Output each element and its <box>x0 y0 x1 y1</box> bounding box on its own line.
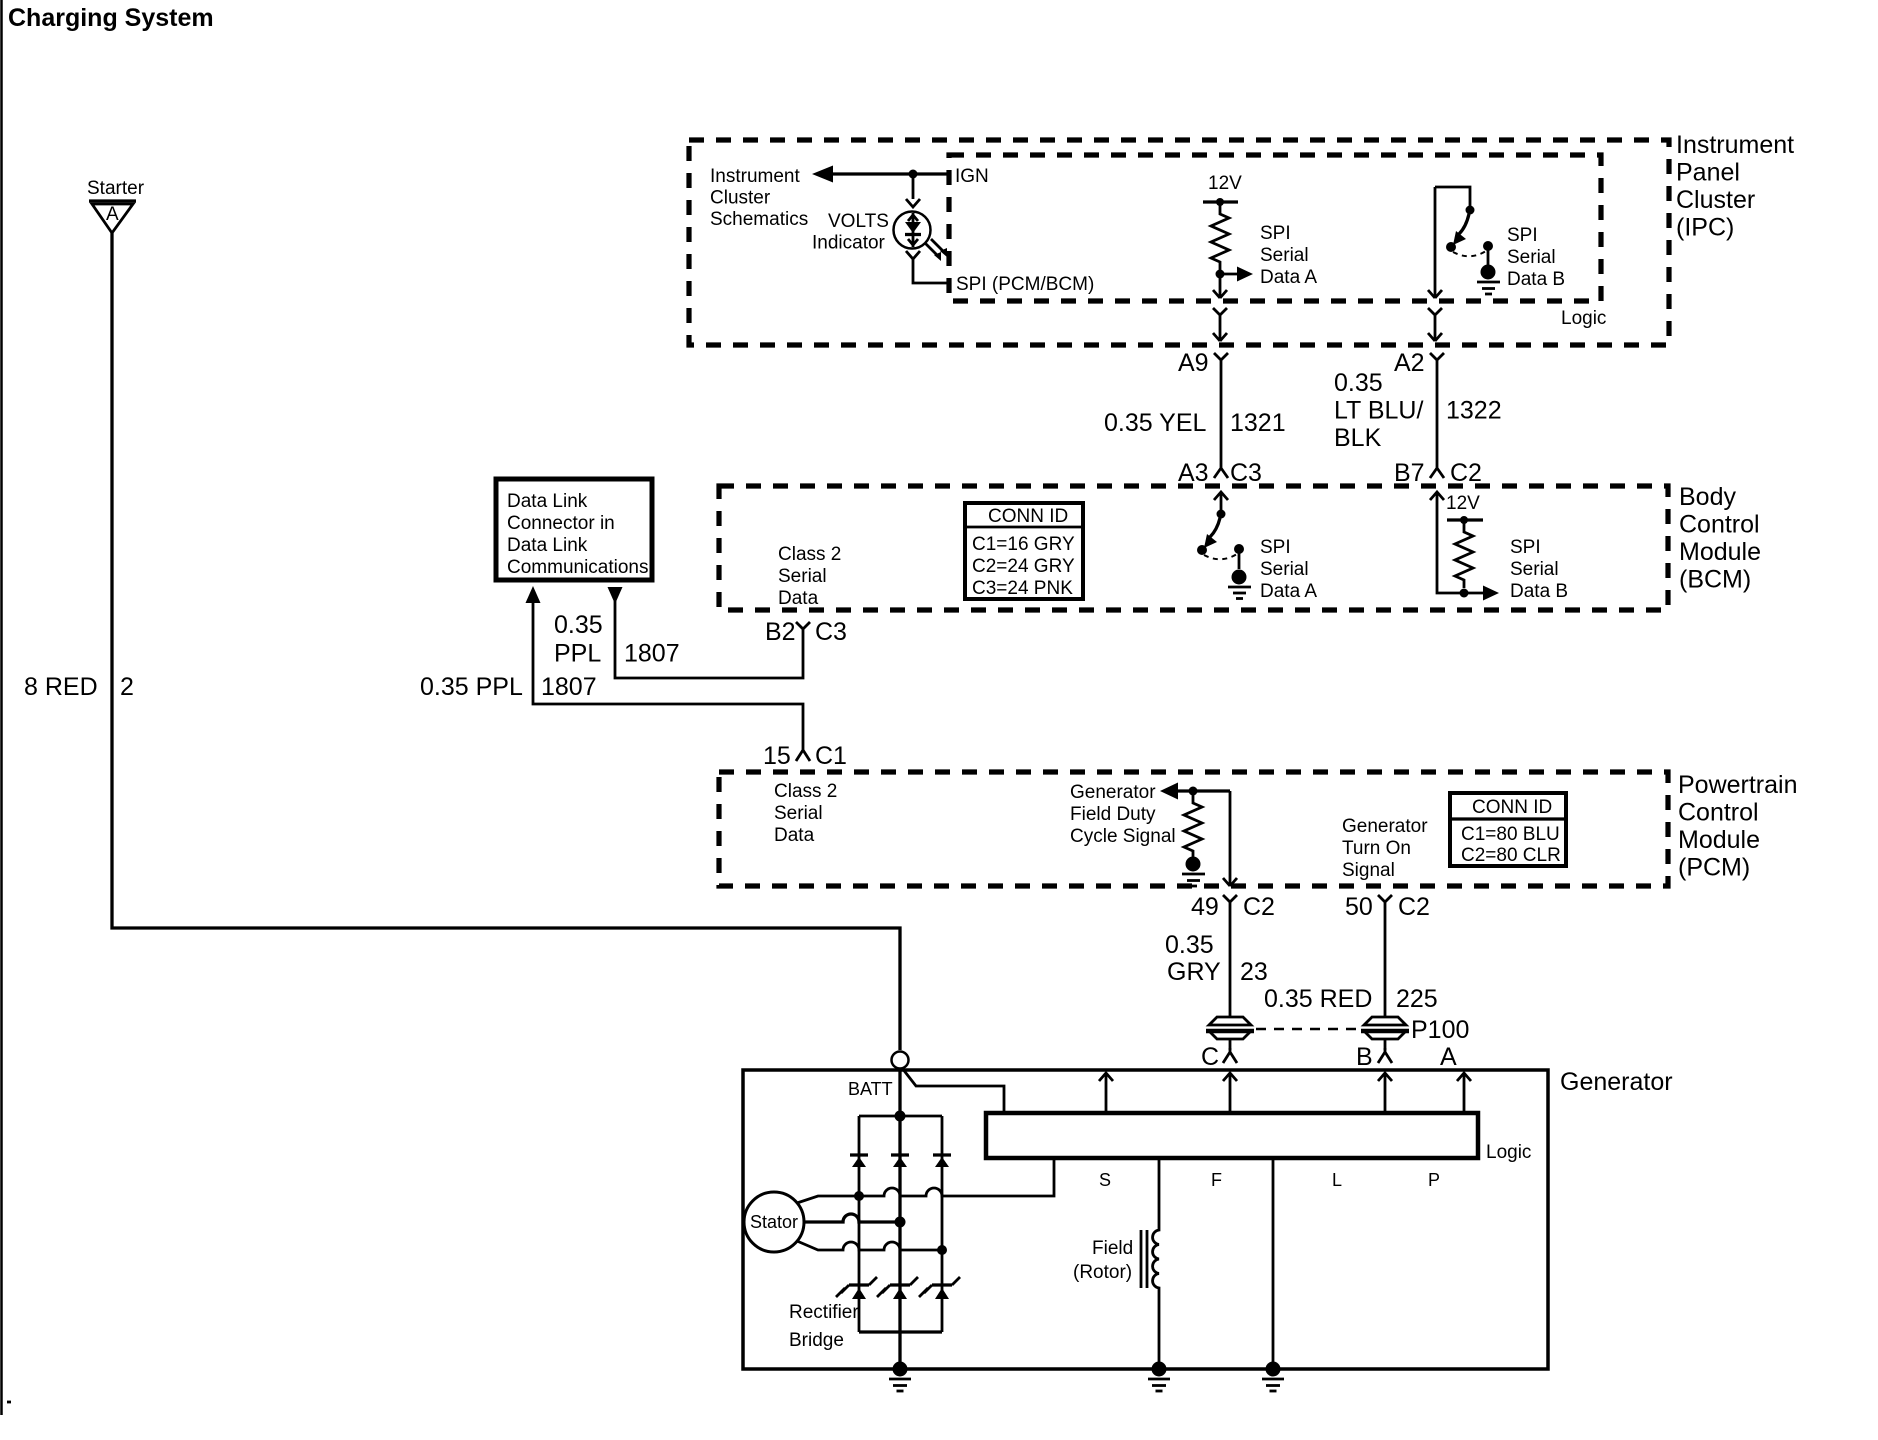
svg-text:BLK: BLK <box>1334 424 1382 452</box>
svg-text:C2: C2 <box>1398 893 1430 921</box>
arrow up into DLC <box>526 586 541 603</box>
svg-text:0.35: 0.35 <box>1165 931 1214 959</box>
connector C chevron <box>1223 1048 1237 1063</box>
arrow logic to terminal C <box>1229 1073 1232 1113</box>
svg-text:P100: P100 <box>1411 1016 1469 1044</box>
arrow SPI serial data A <box>1220 273 1239 276</box>
wire IGN with left arrow <box>828 172 949 175</box>
svg-text:BATT: BATT <box>848 1079 893 1099</box>
svg-text:Generator: Generator <box>1560 1068 1673 1096</box>
ground (IPC data B) <box>1481 265 1496 280</box>
svg-text:Cluster: Cluster <box>710 188 771 209</box>
resistor SPI serial data A pull-up (IPC) <box>1211 202 1229 270</box>
svg-text:Cluster: Cluster <box>1676 186 1755 214</box>
wire SPI (PCM/BCM) <box>913 259 949 283</box>
svg-text:IGN: IGN <box>955 166 989 187</box>
svg-text:2: 2 <box>120 673 134 701</box>
stator winding row 1 (S phase) <box>797 1158 1054 1203</box>
svg-text:SPI: SPI <box>1260 223 1291 244</box>
IPC logic inner dashed box <box>949 155 1601 301</box>
chevron below logic box (B) <box>1428 308 1442 322</box>
svg-text:0.35 RED: 0.35 RED <box>1264 985 1372 1013</box>
svg-text:Serial: Serial <box>1260 559 1309 580</box>
svg-text:0.35: 0.35 <box>554 611 603 639</box>
CONN ID table (PCM) <box>1450 793 1566 866</box>
svg-text:A3: A3 <box>1178 459 1209 487</box>
svg-text:Body: Body <box>1679 483 1736 511</box>
svg-text:Logic: Logic <box>1561 308 1606 329</box>
svg-text:Powertrain: Powertrain <box>1678 771 1798 799</box>
resistor field duty (PCM) <box>1184 791 1202 857</box>
svg-text:Data B: Data B <box>1510 581 1568 602</box>
svg-text:A2: A2 <box>1394 349 1425 377</box>
zener rail2 <box>890 1283 910 1286</box>
svg-text:C2=24 GRY: C2=24 GRY <box>972 556 1075 577</box>
L wire to ground <box>1272 1158 1275 1369</box>
svg-text:F: F <box>1211 1170 1222 1190</box>
junction dot BATT rail <box>895 1111 906 1122</box>
svg-text:Class 2: Class 2 <box>778 544 841 565</box>
svg-text:Control: Control <box>1679 511 1760 539</box>
inline connector P100 (B wire) <box>1364 1017 1406 1025</box>
svg-text:L: L <box>1332 1170 1342 1190</box>
svg-text:Module: Module <box>1678 826 1760 854</box>
svg-text:Logic: Logic <box>1486 1142 1531 1163</box>
svg-text:CONN ID: CONN ID <box>1472 797 1552 818</box>
svg-text:Generator: Generator <box>1070 782 1156 803</box>
svg-text:SPI (PCM/BCM): SPI (PCM/BCM) <box>956 274 1094 295</box>
svg-text:Signal: Signal <box>1342 860 1395 881</box>
svg-text:Data B: Data B <box>1507 269 1565 290</box>
svg-text:Instrument: Instrument <box>1676 131 1794 159</box>
svg-text:1807: 1807 <box>541 673 597 701</box>
wire 0.35 LT BLU/BLK 1322 <box>1436 366 1439 463</box>
svg-text:(BCM): (BCM) <box>1679 566 1751 594</box>
wire A3/C3 into BCM with up arrow <box>1214 492 1228 500</box>
svg-text:Data Link: Data Link <box>507 535 588 556</box>
arrow logic to terminal B <box>1384 1073 1387 1113</box>
svg-text:GRY: GRY <box>1167 958 1221 986</box>
svg-text:C1=16 GRY: C1=16 GRY <box>972 534 1075 555</box>
svg-text:0.35: 0.35 <box>1334 369 1383 397</box>
ground field <box>1152 1362 1167 1377</box>
arrow logic to terminal A <box>1463 1073 1466 1113</box>
svg-text:SPI: SPI <box>1260 537 1291 558</box>
svg-text:Bridge: Bridge <box>789 1330 844 1351</box>
wire 0.35 GRY 23 <box>1229 908 1232 1017</box>
connector A2 chevron <box>1430 353 1444 366</box>
svg-text:Data A: Data A <box>1260 581 1317 602</box>
svg-text:C3: C3 <box>1230 459 1262 487</box>
wire B2/C3 to DLC (1807) <box>615 600 803 678</box>
svg-text:B2: B2 <box>765 618 796 646</box>
svg-text:Module: Module <box>1679 538 1761 566</box>
wire 49 to PCM edge <box>1229 791 1232 886</box>
diode rail3 <box>933 1153 951 1156</box>
connector chevron below indicator <box>906 251 920 259</box>
resistor SPI serial data B pull-up (BCM) <box>1455 520 1473 588</box>
arrow down into wire 1807 <box>608 587 623 604</box>
wire C to generator <box>1229 1039 1232 1050</box>
rail top bus <box>859 1115 942 1118</box>
connector chevron above indicator <box>906 199 920 207</box>
svg-text:1807: 1807 <box>624 640 680 668</box>
wire BATT to logic <box>902 1068 1004 1113</box>
generator box <box>743 1070 1548 1369</box>
wire 15/C1 to DLC (1807) <box>533 602 803 745</box>
wire 0.35 RED 225 <box>1384 908 1387 1017</box>
wire data A to logic edge <box>1219 274 1222 298</box>
svg-text:A: A <box>106 204 119 225</box>
connector A3 C3 chevron <box>1214 463 1228 478</box>
page left border <box>0 0 3 1415</box>
svg-text:(PCM): (PCM) <box>1678 854 1750 882</box>
BATT terminal circle <box>892 1052 909 1069</box>
svg-text:C1=80 BLU: C1=80 BLU <box>1461 824 1560 845</box>
svg-text:Class 2: Class 2 <box>774 781 837 802</box>
svg-text:Serial: Serial <box>778 566 827 587</box>
svg-text:PPL: PPL <box>554 640 601 668</box>
svg-text:Serial: Serial <box>1507 247 1556 268</box>
svg-text:Rectifier: Rectifier <box>789 1302 859 1323</box>
stator winding row 3 <box>797 1241 942 1250</box>
stray mark bottom left <box>7 1401 11 1404</box>
svg-text:(Rotor): (Rotor) <box>1073 1262 1132 1283</box>
svg-text:50: 50 <box>1345 893 1373 921</box>
svg-text:C2: C2 <box>1450 459 1482 487</box>
junction dot (BCM data B) <box>1460 589 1469 598</box>
svg-text:0.35 PPL: 0.35 PPL <box>420 673 523 701</box>
rectifier rail 3 <box>941 1116 944 1332</box>
svg-text:23: 23 <box>1240 958 1268 986</box>
rectifier rail 1 <box>858 1116 861 1332</box>
svg-text:LT BLU/: LT BLU/ <box>1334 397 1423 425</box>
connector 15 C1 chevron <box>796 745 810 761</box>
connector B chevron <box>1378 1048 1392 1063</box>
wire to IPC bottom edge (B) <box>1434 322 1437 341</box>
svg-text:1322: 1322 <box>1446 397 1502 425</box>
svg-text:12V: 12V <box>1208 173 1242 194</box>
svg-text:Schematics: Schematics <box>710 209 808 230</box>
svg-text:Connector in: Connector in <box>507 513 615 534</box>
chevron below logic box (A) <box>1213 308 1227 322</box>
IPC module dashed box <box>689 140 1669 345</box>
logic box (generator) <box>986 1113 1478 1158</box>
svg-text:S: S <box>1099 1170 1111 1190</box>
svg-text:Instrument: Instrument <box>710 166 800 187</box>
wire 0.35 YEL 1321 <box>1220 366 1223 463</box>
svg-text:B: B <box>1356 1043 1373 1071</box>
svg-text:Control: Control <box>1678 799 1759 827</box>
junction dot row1 rail1 <box>854 1191 864 1201</box>
svg-text:Serial: Serial <box>1510 559 1559 580</box>
svg-text:Serial: Serial <box>1260 245 1309 266</box>
svg-text:Turn On: Turn On <box>1342 838 1411 859</box>
wire B to generator <box>1384 1039 1387 1050</box>
arrow logic to terminal 1 <box>1105 1073 1108 1113</box>
BCM module dashed box <box>719 486 1668 610</box>
svg-text:225: 225 <box>1396 985 1438 1013</box>
svg-text:(IPC): (IPC) <box>1676 214 1734 242</box>
svg-text:8 RED: 8 RED <box>24 673 98 701</box>
field rotor coil <box>1153 1158 1159 1369</box>
svg-text:C: C <box>1201 1043 1219 1071</box>
svg-text:VOLTS: VOLTS <box>828 211 889 232</box>
svg-text:C1: C1 <box>815 742 847 770</box>
svg-text:49: 49 <box>1191 893 1219 921</box>
svg-text:Panel: Panel <box>1676 159 1740 187</box>
junction dot row3 rail3 <box>937 1245 947 1255</box>
svg-text:B7: B7 <box>1394 459 1425 487</box>
junction dot row2 rail2 <box>895 1217 906 1228</box>
switch SPI serial data A (BCM) <box>1217 510 1226 519</box>
zener rail3 <box>932 1283 952 1286</box>
stator winding row 2 <box>804 1214 900 1222</box>
svg-text:C2=80 CLR: C2=80 CLR <box>1461 845 1561 866</box>
svg-text:A9: A9 <box>1178 349 1209 377</box>
stator circle <box>744 1192 804 1252</box>
ground BATT rail <box>893 1362 908 1377</box>
svg-text:Charging System: Charging System <box>8 4 214 32</box>
PCM module dashed box <box>719 772 1668 886</box>
arrow generator field duty <box>1176 789 1230 792</box>
connector B2 C3 chevron <box>796 622 810 637</box>
junction dot (IPC data A) <box>1216 270 1225 279</box>
main BATT rail <box>898 1069 901 1369</box>
svg-text:Data Link: Data Link <box>507 491 588 512</box>
svg-text:SPI: SPI <box>1507 225 1538 246</box>
svg-text:C3=24 PNK: C3=24 PNK <box>972 578 1073 599</box>
connector B7 C2 chevron <box>1430 463 1444 478</box>
junction dot (field duty) <box>1189 787 1198 796</box>
diode rail2 <box>891 1153 909 1156</box>
data link connector box <box>496 479 652 580</box>
svg-text:Data: Data <box>778 588 819 609</box>
zener rail1 <box>849 1283 869 1286</box>
svg-text:Cycle Signal: Cycle Signal <box>1070 826 1176 847</box>
connector A9 chevron <box>1214 353 1228 366</box>
svg-text:Indicator: Indicator <box>812 233 886 254</box>
connector 50 C2 chevron <box>1378 895 1392 908</box>
wire to IPC bottom edge (A) <box>1219 322 1222 341</box>
svg-text:Generator: Generator <box>1342 816 1428 837</box>
arrow SPI serial data B <box>1464 592 1485 595</box>
dashed link between P100 halves <box>1256 1028 1360 1031</box>
svg-text:C3: C3 <box>815 618 847 646</box>
switch SPI serial data B (IPC) <box>1435 187 1470 206</box>
connector 49 C2 chevron <box>1223 895 1237 908</box>
svg-text:Serial: Serial <box>774 803 823 824</box>
starter A triangle symbol <box>89 199 136 202</box>
svg-text:P: P <box>1428 1170 1440 1190</box>
svg-text:Field Duty: Field Duty <box>1070 804 1156 825</box>
ground (PCM) <box>1186 857 1201 872</box>
svg-text:SPI: SPI <box>1510 537 1541 558</box>
svg-text:A: A <box>1440 1043 1457 1071</box>
svg-text:Data A: Data A <box>1260 267 1317 288</box>
svg-text:Starter: Starter <box>87 178 145 199</box>
svg-text:1321: 1321 <box>1230 409 1286 437</box>
svg-text:0.35 YEL: 0.35 YEL <box>1104 409 1207 437</box>
diode rail1 <box>850 1153 868 1156</box>
CONN ID table (BCM) <box>965 503 1083 599</box>
svg-text:12V: 12V <box>1446 493 1480 514</box>
svg-text:CONN ID: CONN ID <box>988 506 1068 527</box>
ground L <box>1266 1362 1281 1377</box>
svg-text:15: 15 <box>763 742 791 770</box>
VOLTS indicator lamp <box>894 212 931 249</box>
svg-text:Field: Field <box>1092 1238 1133 1259</box>
wire to VOLTS indicator <box>912 174 915 199</box>
rail bottom bus <box>859 1330 942 1333</box>
wire data B to logic edge <box>1434 187 1437 298</box>
wire B7/C2 into BCM with up arrow <box>1430 492 1444 500</box>
wire 8 RED 2 from starter to generator BATT <box>112 233 900 1050</box>
ground (BCM data A) <box>1232 570 1247 585</box>
field rotor core bars <box>1140 1230 1143 1288</box>
svg-text:Data: Data <box>774 825 815 846</box>
inline connector P100 (C wire) <box>1209 1017 1251 1025</box>
svg-text:Stator: Stator <box>750 1212 798 1232</box>
svg-text:C2: C2 <box>1243 893 1275 921</box>
svg-text:Communications: Communications <box>507 557 649 578</box>
junction dot IGN <box>909 170 918 179</box>
lamp light rays <box>925 239 945 257</box>
